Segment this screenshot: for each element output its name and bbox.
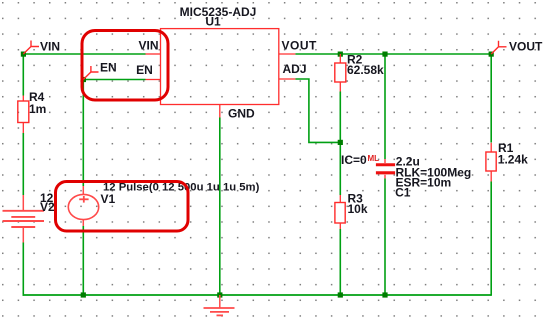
ground <box>204 295 235 315</box>
resistor R3 <box>335 195 345 229</box>
op-amp U1 body MIC5235-ADJ <box>161 29 279 105</box>
resistor R4 <box>18 96 29 134</box>
wire battery V2 to bottom rail <box>22 243 24 296</box>
wire EN vertical to V1 <box>82 80 84 187</box>
junction node VIN terminal <box>21 52 26 57</box>
resistor R1 <box>486 143 496 182</box>
junction node C1 bottom <box>382 292 387 297</box>
wire R4 to battery V2 <box>22 133 24 195</box>
svg-text:EN: EN <box>100 61 117 75</box>
svg-text:VIN: VIN <box>40 40 60 54</box>
svg-text:EN: EN <box>136 63 153 77</box>
U1 pin GND lead <box>219 105 221 118</box>
svg-text:1m: 1m <box>29 102 46 116</box>
junction node VOUT terminal <box>489 52 494 57</box>
terminal EN tick <box>83 66 98 80</box>
wire ADJ to node <box>295 79 340 142</box>
wire ADJ node to R3 <box>339 142 341 195</box>
junction node R3 bottom <box>338 292 343 297</box>
wire VOUT rail down to R1 <box>490 54 492 143</box>
U1 pin VOUT lead <box>279 53 296 55</box>
svg-text:V1: V1 <box>101 192 116 206</box>
junction node ADJ <box>338 140 343 145</box>
wire R2 bottom to ADJ node <box>339 92 341 143</box>
voltage source V1 <box>68 186 98 226</box>
wire bottom ground rail <box>23 294 492 296</box>
U1 pin EN lead <box>146 79 161 81</box>
wire VOUT rail top-right <box>295 53 491 55</box>
svg-text:VOUT: VOUT <box>509 40 543 54</box>
svg-text:62.58k: 62.58k <box>347 63 384 77</box>
terminal VOUT tick <box>491 41 506 54</box>
U1 pin VIN lead <box>146 53 161 55</box>
wire R3 to bottom rail <box>339 229 341 295</box>
wire VOUT rail to C1 <box>384 54 386 159</box>
svg-text:GND: GND <box>228 107 255 121</box>
svg-text:ML: ML <box>368 154 380 163</box>
highlight annotation around U1 VIN/EN pins <box>82 31 168 101</box>
wire V1 to bottom rail <box>82 226 84 295</box>
junction node ground <box>217 292 222 297</box>
wire R1 to bottom rail <box>490 182 492 296</box>
wire EN horizontal <box>83 79 145 81</box>
svg-text:VIN: VIN <box>138 39 158 53</box>
junction node R2 top <box>338 52 343 57</box>
wire GND pin to bottom rail <box>219 118 221 296</box>
capacitor C1 <box>376 159 395 179</box>
battery V2 <box>3 195 45 243</box>
svg-text:V2: V2 <box>40 200 55 214</box>
terminal VIN tick <box>23 41 39 55</box>
junction node EN terminal <box>81 77 86 82</box>
svg-text:U1: U1 <box>205 15 221 29</box>
junction node C1 top <box>382 52 387 57</box>
svg-text:C1: C1 <box>395 186 411 200</box>
junction node V1 bottom <box>81 292 86 297</box>
svg-text:IC=0: IC=0 <box>341 153 367 167</box>
svg-text:VOUT: VOUT <box>282 39 318 53</box>
wire left vertical VIN to R4 <box>22 54 24 96</box>
wire VIN rail top-left <box>23 53 145 55</box>
U1 pin ADJ lead <box>279 78 296 80</box>
svg-text:1.24k: 1.24k <box>498 153 528 167</box>
resistor R2 <box>335 54 346 92</box>
svg-text:ADJ: ADJ <box>283 62 307 76</box>
wire C1 to bottom rail <box>384 179 386 296</box>
svg-text:10k: 10k <box>348 202 368 216</box>
highlight annotation around V1 <box>56 182 189 232</box>
